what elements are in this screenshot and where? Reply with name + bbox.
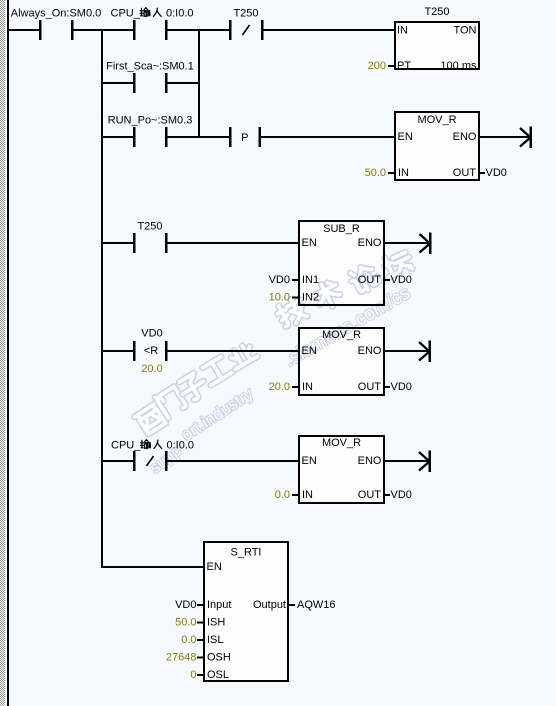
svg-text:MOV_R: MOV_R bbox=[322, 437, 361, 449]
contact First_Sca~:SM0.1 bbox=[133, 73, 168, 93]
OUT stub bbox=[385, 386, 390, 388]
wire contact2 to NC T250 bbox=[167, 29, 229, 31]
svg-text:ISL: ISL bbox=[207, 634, 224, 646]
svg-text:27648: 27648 bbox=[166, 652, 197, 664]
svg-text:EN: EN bbox=[207, 561, 222, 573]
svg-text:OSH: OSH bbox=[207, 652, 231, 664]
svg-text:P: P bbox=[241, 132, 248, 144]
wire branch to First_Sca contact bbox=[103, 82, 133, 84]
svg-text:200: 200 bbox=[368, 60, 386, 72]
svg-text:IN: IN bbox=[397, 25, 408, 37]
wire branch to NC contact bbox=[103, 460, 133, 462]
wire T250 to SUB_R box bbox=[167, 242, 298, 244]
PT pin stub bbox=[388, 65, 394, 67]
contact CPU_输入 0:I0.0 bbox=[133, 20, 168, 40]
contact Always_On:SM0.0 bbox=[39, 20, 74, 40]
svg-text:0:I0.0: 0:I0.0 bbox=[166, 8, 194, 20]
IN pin stub bbox=[388, 172, 394, 174]
svg-text:OUT: OUT bbox=[453, 167, 477, 179]
continuation arrow row5 bbox=[419, 341, 431, 363]
svg-text:0:I0.0: 0:I0.0 bbox=[167, 440, 195, 452]
MOV_R row6 box outline bbox=[299, 436, 384, 503]
continuation arrow row6 bbox=[419, 451, 431, 473]
svg-text:OUT: OUT bbox=[358, 274, 382, 286]
left hatched margin strip bbox=[0, 0, 5, 706]
white box fills bbox=[394, 21, 480, 70]
MOV_R row3 box outline bbox=[395, 112, 479, 180]
svg-text:ENO: ENO bbox=[358, 345, 382, 357]
svg-text:MOV_R: MOV_R bbox=[322, 329, 361, 341]
svg-text:20.0: 20.0 bbox=[141, 363, 162, 375]
branch vertical main bbox=[101, 29, 103, 568]
wire branch to RUN_Po contact bbox=[103, 136, 133, 138]
IN2 stub bbox=[292, 297, 298, 299]
Output stub bbox=[289, 604, 295, 606]
svg-text:T250: T250 bbox=[233, 8, 258, 20]
svg-text:VD0: VD0 bbox=[269, 274, 290, 286]
junction vertical row1-row3 bbox=[198, 29, 200, 137]
svg-text:OUT: OUT bbox=[358, 381, 382, 393]
OUT pin stub bbox=[480, 172, 485, 174]
wire First_Sca to junction bbox=[167, 82, 198, 84]
svg-text:Always_On:SM0.0: Always_On:SM0.0 bbox=[11, 8, 101, 20]
svg-text:EN: EN bbox=[302, 345, 317, 357]
svg-text:First_Sca~:SM0.1: First_Sca~:SM0.1 bbox=[106, 61, 194, 73]
wire ENO to arrow bbox=[385, 242, 429, 244]
NC contact CPU_输入 bbox=[133, 451, 168, 471]
left power rail bbox=[7, 0, 9, 706]
wire ENO to arrow bbox=[385, 350, 429, 352]
svg-text:IN2: IN2 bbox=[302, 292, 319, 304]
wire ENO to arrow bbox=[480, 136, 530, 138]
svg-text:10.0: 10.0 bbox=[269, 292, 290, 304]
svg-text:SUB_R: SUB_R bbox=[323, 223, 360, 235]
svg-text:OUT: OUT bbox=[358, 489, 382, 501]
IN stub bbox=[292, 386, 298, 388]
svg-text:0.0: 0.0 bbox=[275, 489, 290, 501]
contact T250 row4 bbox=[133, 233, 168, 253]
svg-text:IN: IN bbox=[302, 489, 313, 501]
wire branch to compare contact bbox=[103, 350, 133, 352]
svg-text:EN: EN bbox=[398, 131, 413, 143]
wire compare to MOV_R box bbox=[167, 350, 298, 352]
svg-text:VD0: VD0 bbox=[391, 381, 412, 393]
label CPU_输入 0:I0.0 row1 bbox=[111, 8, 194, 20]
wire ENO to arrow bbox=[385, 460, 429, 462]
svg-text:ENO: ENO bbox=[453, 131, 477, 143]
ISL stub bbox=[197, 639, 203, 641]
svg-text:S_RTI: S_RTI bbox=[231, 547, 262, 559]
svg-text:EN: EN bbox=[302, 237, 317, 249]
IN1 stub bbox=[292, 279, 298, 281]
label CPU_输入 0:I0.0 row6 bbox=[111, 440, 194, 452]
wire branch to S_RTI box bbox=[101, 566, 203, 568]
svg-text:0.0: 0.0 bbox=[181, 634, 196, 646]
svg-text:ENO: ENO bbox=[358, 455, 382, 467]
wire RUN_Po to P contact bbox=[167, 136, 229, 138]
wire branch to T250 contact bbox=[103, 242, 133, 244]
svg-text:50.0: 50.0 bbox=[365, 167, 386, 179]
S_RTI box outline bbox=[204, 542, 288, 681]
svg-text:50.0: 50.0 bbox=[175, 617, 196, 629]
svg-text:IN: IN bbox=[398, 167, 409, 179]
svg-text:T250: T250 bbox=[137, 221, 162, 233]
wire P contact to MOV_R box bbox=[261, 136, 395, 138]
contact RUN_Po~:SM0.3 bbox=[133, 127, 168, 147]
svg-text:IN1: IN1 bbox=[302, 274, 319, 286]
svg-text:CPU_: CPU_ bbox=[111, 8, 141, 20]
Input stub bbox=[197, 604, 203, 606]
OSH stub bbox=[197, 657, 203, 659]
svg-text:TON: TON bbox=[453, 25, 476, 37]
svg-text:IN: IN bbox=[302, 381, 313, 393]
timer T250 TON box outline bbox=[395, 22, 479, 69]
continuation arrow row3 bbox=[520, 127, 532, 149]
svg-text:Input: Input bbox=[207, 599, 231, 611]
svg-text:OSL: OSL bbox=[207, 669, 229, 681]
svg-text:100 ms: 100 ms bbox=[440, 60, 477, 72]
svg-text:PT: PT bbox=[397, 60, 411, 72]
svg-text:VD0: VD0 bbox=[175, 599, 196, 611]
svg-text:EN: EN bbox=[302, 455, 317, 467]
svg-text:<R: <R bbox=[144, 345, 158, 357]
continuation arrow row4 bbox=[420, 233, 432, 255]
svg-text:ENO: ENO bbox=[358, 237, 382, 249]
watermark bbox=[135, 403, 168, 435]
IN stub bbox=[292, 494, 298, 496]
OUT stub bbox=[385, 494, 390, 496]
svg-text:T250: T250 bbox=[424, 6, 449, 18]
svg-text:RUN_Po~:SM0.3: RUN_Po~:SM0.3 bbox=[108, 115, 193, 127]
OSL stub bbox=[197, 674, 203, 676]
wire contact1 to contact2 bbox=[73, 29, 133, 31]
svg-text:ISH: ISH bbox=[207, 617, 225, 629]
svg-text:CPU_: CPU_ bbox=[111, 440, 141, 452]
wire NC to MOV_R box bbox=[167, 460, 298, 462]
NC contact T250 bbox=[229, 20, 264, 40]
svg-text:AQW16: AQW16 bbox=[297, 599, 336, 611]
svg-text:VD0: VD0 bbox=[391, 274, 412, 286]
MOV_R row5 box outline bbox=[299, 328, 384, 395]
OUT stub bbox=[385, 279, 390, 281]
SUB_R box outline bbox=[299, 221, 384, 305]
compare contact <R bbox=[133, 341, 168, 361]
svg-text:MOV_R: MOV_R bbox=[417, 114, 456, 126]
svg-text:Output: Output bbox=[253, 599, 286, 611]
svg-text:20.0: 20.0 bbox=[269, 381, 290, 393]
P edge contact bbox=[229, 127, 261, 147]
wire rail to contact1 bbox=[9, 29, 39, 31]
svg-text:0: 0 bbox=[190, 669, 196, 681]
svg-text:VD0: VD0 bbox=[141, 328, 162, 340]
wire NC T250 to TON box bbox=[263, 29, 394, 31]
ISH stub bbox=[197, 622, 203, 624]
svg-text:VD0: VD0 bbox=[486, 167, 507, 179]
svg-text:VD0: VD0 bbox=[391, 489, 412, 501]
